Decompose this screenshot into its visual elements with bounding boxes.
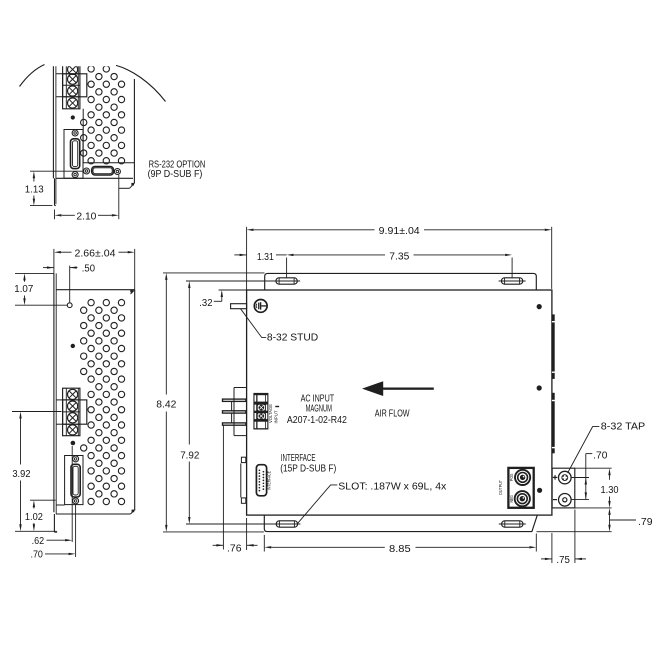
dimension .75 [541,510,586,566]
output connector block [508,468,533,508]
svg-text:(15P D-SUB F): (15P D-SUB F) [280,463,336,474]
perforation holes (view B) [81,299,125,504]
svg-text:1.02: 1.02 [25,512,43,523]
svg-text:3.92: 3.92 [12,469,31,480]
svg-text:.70: .70 [31,549,44,560]
AC input prongs [223,399,246,425]
svg-text:INPUT: INPUT [273,410,278,423]
dimension .70 (view B) [31,504,76,561]
break arc right [116,65,166,101]
panel top edge [56,289,135,291]
svg-text:8.42: 8.42 [156,400,177,411]
stud side tab [231,304,247,309]
index dot lower (view B) [71,441,76,446]
interior dots (view C) [537,304,542,309]
svg-text:8-32 TAP: 8-32 TAP [601,422,646,433]
dimension 2.66±.04 [54,248,135,289]
svg-text:(9P D-SUB F): (9P D-SUB F) [148,169,203,180]
bottom flange rear edge + corner mark [119,187,130,189]
svg-text:8-32 STUD: 8-32 STUD [267,333,318,344]
panel left edge double line [52,66,54,179]
8-32 stud circle [254,300,267,313]
interface D-SUB 15P (view C) [256,465,266,496]
svg-text:.50: .50 [82,263,96,274]
slot bottom-right [499,521,526,527]
dimension 7.92 [180,281,298,524]
dimension 1.31 [234,252,286,263]
terminal block (view B) [56,388,87,436]
leader 8-32 STUD [241,309,267,338]
dimension 9.91±.04 [247,226,552,290]
svg-text:AIR FLOW: AIR FLOW [375,408,410,419]
svg-text:1.07: 1.07 [14,284,33,295]
interface bracket (view C) [241,457,246,503]
svg-text:INTERFACE: INTERFACE [281,453,316,464]
dimension .70 (tap) [572,451,608,500]
slot top-right [499,278,526,284]
panel bottom edge [56,513,131,515]
dimension 1.02 [25,500,56,531]
svg-text:MAGNUM: MAGNUM [306,404,332,415]
svg-text:7.92: 7.92 [180,450,200,461]
top right corner mark [131,290,135,294]
bottom mounting flange [264,515,537,532]
RS-232 vertical D-SUB (view A) [64,130,83,179]
interface vertical D-SUB (view B) [65,456,83,505]
svg-text:OUTPUT: OUTPUT [498,480,503,495]
svg-text:.76: .76 [227,543,242,554]
panel right edge [134,290,136,511]
bottom right corner mark [131,510,135,514]
right edge connector bar lower [552,393,555,454]
svg-text:A207-1-02-R42: A207-1-02-R42 [287,415,347,426]
index dot upper (view B) [71,344,75,348]
right edge connector bar upper [552,314,555,379]
leader 8-32 TAP [568,427,600,473]
bottom flange front edge [53,514,55,532]
dimension 8.85 [264,534,536,555]
AC input rear bracket [232,388,246,436]
break arc left [20,65,45,87]
9P D-SUB connector (view A) [84,167,121,176]
left flange edge double line [53,273,55,512]
svg-text:2.66±.04: 2.66±.04 [75,248,116,259]
svg-text:.62: .62 [32,536,45,547]
svg-text:2.10: 2.10 [76,212,96,223]
dimension .32 [199,290,264,309]
recess boundary L [82,109,84,163]
8-32 tap plate [552,468,575,508]
dimension .50 [43,263,95,302]
dimension 2.10 [55,175,119,223]
svg-text:VOLTAGE: VOLTAGE [268,404,273,423]
panel right edge [133,79,135,183]
perforation holes (view A) [81,66,125,164]
air flow arrow [362,381,434,396]
dimension 3.92 [12,412,62,532]
dimension 8.42 [156,273,264,532]
svg-text:8.85: 8.85 [389,544,411,555]
svg-text:NEG: NEG [509,495,514,503]
svg-text:POS: POS [509,474,514,482]
dimension .76 [213,426,258,555]
dimension 1.13 [25,171,84,205]
svg-text:7.35: 7.35 [389,252,409,263]
dimension 7.35 [287,252,512,279]
leader SLOT [298,485,338,523]
svg-text:1.13: 1.13 [25,185,44,196]
mounting hole .50 (view B) [67,303,72,308]
dimension .79 [537,508,653,532]
svg-text:.32: .32 [199,298,213,309]
panel bottom edge [56,177,133,179]
dimension .62 [32,446,73,547]
svg-text:1.30: 1.30 [601,485,619,496]
D-SUB bracket bottom step (view B) [56,504,64,506]
index dot (view A) [71,115,75,119]
svg-text:SLOT: .187W x 69L, 4x: SLOT: .187W x 69L, 4x [338,482,446,493]
svg-text:.75: .75 [556,555,570,566]
svg-text:INTERFACE: INTERFACE [267,471,272,490]
bottom flange front edge [54,178,56,205]
main body outline [247,290,552,515]
dimension 1.07 [14,273,67,305]
view B: full left-side view [54,273,135,532]
slot bottom-left [273,521,300,527]
svg-text:.70: .70 [593,451,608,462]
top mounting flange [265,273,537,290]
terminal block (view A) [56,64,87,109]
AC input terminal block (black) [253,393,268,430]
svg-text:.79: .79 [638,517,653,528]
dimension 1.30 [575,468,619,508]
svg-text:1.31: 1.31 [257,252,274,263]
slot top-left [273,278,300,284]
svg-text:9.91±.04: 9.91±.04 [379,226,420,237]
